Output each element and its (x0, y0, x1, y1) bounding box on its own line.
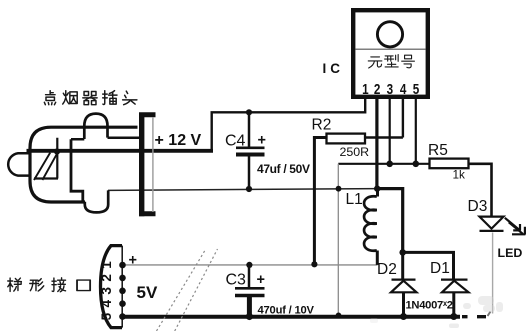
char 口 (77, 280, 90, 290)
char 头 (123, 91, 137, 105)
char 接 (52, 278, 66, 292)
svg-text:1k: 1k (453, 167, 466, 181)
text 无型号 (no model number, inside IC) (368, 55, 414, 68)
junction: pin5 on feedback wire (413, 161, 420, 168)
svg-text:5: 5 (99, 312, 114, 320)
svg-text:250R: 250R (340, 145, 370, 159)
wire: thin line plug lower contact to L1 node (108, 189, 378, 191)
ground rail dashes (watermark area) (462, 315, 486, 318)
svg-text:L1: L1 (346, 191, 363, 208)
svg-text:LED: LED (498, 246, 523, 260)
svg-text:D2: D2 (377, 261, 397, 278)
wire: IC pin4 down to R2 right lead (402, 99, 404, 138)
junction: D2 cathode on ground rail (400, 313, 407, 320)
svg-text:D1: D1 (430, 260, 450, 277)
connector pin dots (119, 262, 126, 320)
char 器 (83, 92, 97, 105)
wire: L1 node to D2/D1 node (378, 189, 403, 253)
plug: top spring arch (84, 114, 107, 139)
char 烟 (63, 91, 77, 104)
svg-text:2: 2 (374, 80, 381, 97)
char 号 (402, 55, 415, 68)
char 形 (30, 279, 44, 291)
plug: right terminal bar (139, 113, 156, 217)
junction: C3 top on 5V rail (246, 262, 252, 268)
svg-text:4: 4 (400, 80, 407, 97)
IC box U1 (353, 10, 428, 97)
diode D1 (441, 280, 469, 317)
char 梯 (8, 278, 22, 291)
capacitor C3 (235, 265, 265, 317)
svg-text:5V: 5V (137, 283, 158, 302)
cigarette plug: tip ellipse (8, 153, 31, 175)
junction: D1 cathode on ground rail (450, 313, 457, 320)
svg-text:R5: R5 (428, 142, 448, 159)
text 点烟器插头 (cigarette lighter plug heading) (44, 91, 137, 105)
IC mounting hole circle (377, 22, 402, 47)
junction: C3 bottom on ground rail (246, 313, 253, 320)
resistor R5 (430, 159, 469, 169)
IC pin numbers 1-5 (362, 80, 420, 97)
char 点 (44, 91, 55, 105)
trapezoid connector body (101, 246, 123, 328)
junction: R2 lead on 5V rail (311, 261, 317, 267)
LED D3 arrows (505, 218, 526, 235)
svg-text:1N4007ˣ2: 1N4007ˣ2 (406, 300, 454, 312)
wire: gray LED cathode line down (492, 233, 494, 314)
svg-text:D3: D3 (468, 198, 488, 215)
svg-text:C3: C3 (226, 272, 247, 289)
plug: fuse element (34, 138, 58, 179)
wire: IC pin2 down to L1 top node (375, 99, 378, 189)
svg-text:3: 3 (99, 287, 114, 295)
wire: R2 left lead down to 5V rail (314, 138, 326, 265)
svg-text:1: 1 (362, 80, 369, 97)
char 插 (103, 91, 117, 105)
IC separator line (355, 48, 425, 50)
wire: IC pin5 down (415, 99, 417, 164)
junction: C4 top on +12V wire (246, 109, 252, 115)
char 无 (368, 57, 382, 68)
svg-text:2: 2 (99, 274, 114, 282)
inductor L1 (364, 189, 377, 265)
svg-text:47uf / 50V: 47uf / 50V (257, 162, 310, 176)
wire: IC pin3 down (389, 99, 391, 164)
ground rail (bottom) (123, 315, 461, 319)
svg-text:470uf / 10V: 470uf / 10V (258, 304, 315, 316)
junction: C4 bottom on return wire (246, 186, 252, 192)
svg-text:C4: C4 (225, 133, 246, 150)
junction: D2 anode node (399, 249, 406, 256)
capacitor C4 (236, 112, 265, 189)
svg-text:3: 3 (387, 80, 394, 97)
junction: plug fuse node (54, 148, 60, 154)
cigarette plug: outer shell (30, 114, 139, 213)
plug: inner top profile (71, 138, 139, 139)
svg-text:1: 1 (99, 261, 114, 269)
wire: gray vertical x338.5 to bottom rail (337, 164, 339, 317)
junction: pin3 on feedback wire (386, 161, 393, 168)
wire: R2 right lead (365, 136, 403, 138)
wire: +12V top wire from plug to IC pin1 (27, 99, 366, 151)
plug: bottom spring arch (85, 190, 108, 212)
LED D3 (480, 217, 504, 231)
svg-text:+: + (129, 252, 137, 268)
svg-text:IC: IC (323, 61, 345, 76)
svg-text:R2: R2 (312, 117, 332, 134)
svg-text:+: + (257, 272, 265, 288)
wire: gray 5V rail (123, 264, 378, 266)
svg-text:5: 5 (413, 80, 420, 97)
junction: gray drop wire x return wire (336, 186, 342, 192)
svg-text:+ 12 V: + 12 V (155, 132, 202, 149)
junction: gray drop wire on ground rail (336, 313, 342, 319)
svg-text:4: 4 (99, 299, 114, 307)
char 型 (385, 55, 399, 67)
wire: feedback line y164 from corner to R5 (338, 163, 429, 165)
text 梯形接口 (trapezoid interface) (8, 278, 90, 292)
junction: L1 top node (pin2) (374, 185, 380, 191)
wire: D2 node to D1 top (403, 252, 454, 278)
connector pin numbers rotated (99, 261, 114, 321)
cable hatch marks (157, 249, 218, 331)
resistor R2 (327, 134, 366, 144)
diode D2 (391, 252, 417, 316)
plug: inner left vertical (71, 139, 83, 202)
wire: R5 right lead down to D3 (469, 164, 492, 217)
watermark remnants (370, 296, 503, 328)
svg-text:+: + (258, 132, 266, 148)
